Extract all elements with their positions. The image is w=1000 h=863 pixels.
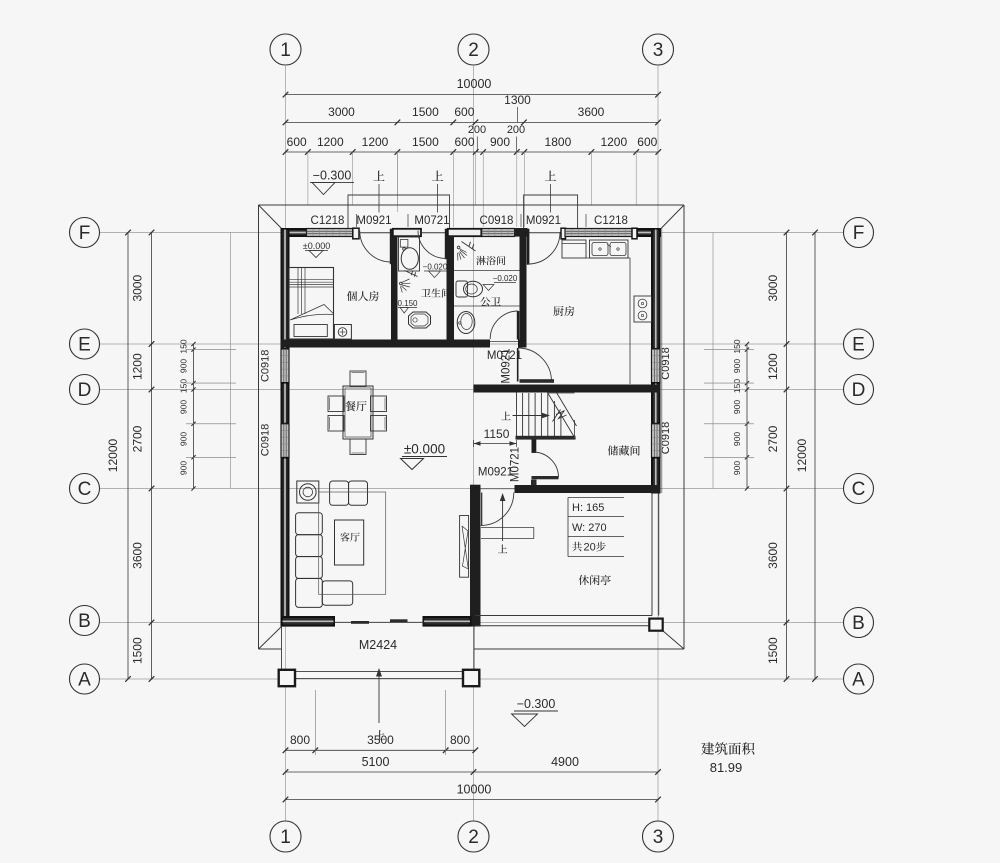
wall jamb left of C1218 right [561,228,566,239]
svg-text:3: 3 [653,827,664,848]
svg-text:3600: 3600 [131,542,145,569]
porch up arrow [376,668,382,723]
svg-text:12000: 12000 [106,438,120,472]
shower room divider line 2 [454,305,520,307]
svg-text:150: 150 [179,339,189,353]
door M0721 hallway swing arc [490,311,518,339]
dimension extension stubs left [186,350,236,458]
dimension segment line left [149,230,155,682]
door M0721 top leaf [445,229,448,260]
door M0721 storage leaf bar [532,476,559,479]
grid bubble E right [844,329,874,359]
stair table text steps [572,542,606,554]
tv cabinet [460,516,469,578]
door M0921 kitchen swing arc [528,232,560,264]
bathroom basin [401,248,418,270]
svg-text:900: 900 [179,400,189,414]
svg-text:4900: 4900 [551,755,579,769]
svg-text:1500: 1500 [412,135,439,149]
svg-text:D: D [78,380,92,401]
svg-text:−0.300: −0.300 [517,697,556,711]
porch right edge [473,627,475,672]
entry up mark 3 [545,171,556,213]
svg-text:M0921: M0921 [526,215,561,227]
svg-text:A: A [78,670,91,691]
wall E-line interior [281,340,490,348]
kitchen sink unit [590,240,629,258]
svg-text:1: 1 [280,827,291,848]
svg-text:1150: 1150 [484,427,510,441]
stair break diagonal 2 [557,393,577,427]
stair center wall stub [532,440,537,454]
bed footboard [294,325,327,337]
sliding door M2424 panel right [390,619,408,622]
svg-text:150: 150 [732,379,742,393]
svg-text:C0918: C0918 [660,422,672,454]
svg-text:−0.020: −0.020 [423,263,448,272]
elevation mark plus-minus 0.000 dining [401,442,448,470]
dining chair top [350,371,366,387]
bed blanket fold [290,305,333,321]
kitchen stove [634,296,652,322]
entry landing right outline [524,195,578,228]
wall right exterior lower [652,458,660,493]
window C0918 left lower [281,424,289,458]
svg-text:200: 200 [507,124,525,136]
grid line axis B horizontal [100,622,843,624]
svg-text:C0918: C0918 [260,350,272,382]
wall right pier between windows [652,383,660,423]
window C1218 top-left in top wall [307,229,353,237]
grid bubble F left [70,218,100,248]
room label kitchen [553,306,574,316]
door M0721 top swing arc [418,231,446,259]
door M0921 living opening sill [481,488,515,490]
wall right outer face line [661,229,663,494]
wall shower-kitchen vertical [520,237,527,348]
room label bedroom [347,291,379,301]
dimension extension stubs top [308,152,636,227]
elevation mark plus-minus 0.000 bedroom [303,241,330,258]
grid bubble 2 top [458,34,489,65]
svg-text:C: C [852,479,866,500]
dimension segment line right [784,230,790,682]
wall left exterior upper [282,229,289,349]
porch up label [375,730,385,739]
wall left exterior lower [282,458,289,626]
svg-text:900: 900 [490,135,510,149]
svg-text:1500: 1500 [766,637,780,664]
wall pier between M0921 and M0721 [393,229,421,236]
svg-text:H: 165: H: 165 [572,502,604,514]
wall top exterior corner segment left [282,229,307,236]
bed outline [289,268,334,340]
dimension row3 line top [283,149,661,155]
sofa left column [296,513,323,608]
wall D-line interior [474,385,661,393]
bed pillow band lines [289,280,334,287]
dining chair right 1 [371,396,387,412]
svg-text:1200: 1200 [362,135,389,149]
eave outline bottom-left segment [259,648,283,650]
window C0918 left upper [281,349,289,383]
dimension 10000 top [283,77,661,97]
pavilion bottom double line [475,616,652,626]
eave outline bottom-right segment [474,648,684,650]
door stop notch on C wall [531,480,537,485]
grid bubble A left [70,664,100,694]
dimension inner line right [745,342,749,491]
svg-text:3: 3 [653,40,664,61]
eave miter top-left [259,205,282,229]
room label living [340,532,359,541]
grid bubble B left [70,606,100,636]
dimension 12000 right line [812,230,818,682]
door M0921 kitchen-hall sill bar [520,379,555,383]
entry up mark 2 [432,171,443,213]
svg-text:C1218: C1218 [311,215,345,227]
svg-text:−0.020: −0.020 [493,274,518,283]
wall B-line living left segment [282,617,334,626]
dining chair left 1 [328,396,344,412]
wall tee pier above shower-kitchen wall [515,228,528,237]
svg-text:10000: 10000 [457,783,492,797]
eave miter bottom-right [663,631,685,650]
stair break zigzag [553,410,567,422]
wall C-line interior [515,485,661,493]
svg-text:1300: 1300 [504,93,531,107]
svg-text:12000: 12000 [795,438,809,472]
svg-text:F: F [79,223,91,244]
svg-text:1: 1 [280,40,291,61]
bathtub [409,312,431,328]
svg-text:10000: 10000 [457,77,492,91]
note building area [701,742,754,754]
svg-text:A: A [852,670,865,691]
dimension 5100 bottom [283,755,477,775]
room label pavilion [578,575,610,585]
svg-text:20: 20 [584,542,596,554]
dimension extension vertical right [712,233,714,489]
grid line axis E horizontal [100,343,843,345]
svg-text:150: 150 [179,379,189,393]
stair right edge [574,420,576,440]
dimension 12000 left line [125,230,131,682]
grid bubble 1 top [270,34,301,65]
pavilion right double line [652,493,659,616]
svg-text:800: 800 [450,733,470,747]
washbasin public wc [457,312,475,334]
stair table lines [568,498,624,557]
svg-text:E: E [78,335,91,356]
svg-text:0.150: 0.150 [397,299,418,308]
svg-text:3000: 3000 [131,275,145,302]
svg-text:±0.000: ±0.000 [303,241,330,251]
svg-text:81.99: 81.99 [710,760,743,775]
wall E-line stub at kitchen wall [518,340,527,348]
shower spray icon bathroom [400,271,418,293]
bathroom basin tap [403,248,406,251]
dining table [343,386,373,439]
eave miter bottom-left [259,627,282,650]
door M0921 kitchen opening sill [528,232,562,234]
bedside table with lamp [334,325,351,340]
door M0921 living swing arc [481,493,514,526]
porch column right [463,670,479,686]
svg-text:900: 900 [732,400,742,414]
eave outline left [258,205,260,649]
grid line axis 2 vertical [473,66,475,821]
label separator ticks top wall [357,214,587,227]
window C1218 top-right in top wall [565,229,632,237]
elevation mark 0.150 bathroom [397,299,418,313]
svg-text:3000: 3000 [766,275,780,302]
kitchen appliance counter [562,240,586,258]
svg-text:900: 900 [732,432,742,446]
eave miter top-right [661,205,684,229]
stair left edge [516,393,518,438]
sofa chaise extension [322,581,352,605]
stair up arrow [513,413,551,419]
dimension 200 top right raised [507,124,525,152]
grid bubble 1 bottom [270,821,301,852]
stair up label [501,411,510,420]
svg-text:M0721: M0721 [510,447,522,482]
living rug outline [319,492,386,594]
sliding door M2424 track [335,621,424,623]
dimension extension stubs right [704,350,754,458]
svg-text:900: 900 [179,359,189,373]
eave outline right [683,205,685,649]
wall living-room east vertical [470,493,481,627]
stair top edge right part [548,392,575,394]
porch left edge [281,627,283,672]
elevation mark -0.300 top [310,169,354,195]
dimension inner line left [191,342,195,491]
svg-text:1200: 1200 [131,353,145,380]
entry up mark 1 [373,171,384,213]
svg-text:5100: 5100 [362,755,390,769]
dimension 1300 top raised [504,93,531,122]
room label public wc [480,297,500,306]
grid line axis D horizontal [100,389,843,391]
wall living-room east cap at C [470,485,481,493]
svg-text:D: D [852,380,866,401]
dimension extension porch columns [315,690,445,755]
grid bubble B right [844,608,874,638]
wall jamb right of C1218 right [632,228,637,239]
grid bubble D right [844,375,874,405]
grid line axis 1 vertical [285,66,287,821]
dimension 1150 corridor [474,427,517,447]
door M0921 top-left leaf [390,229,393,265]
wall right exterior upper [652,229,660,349]
elevation mark -0.020 public wc [483,274,518,291]
porch column left [279,670,295,686]
door M0921 kitchen-hall leaf [517,348,519,382]
stair bottom bar [516,436,576,440]
svg-text:600: 600 [287,135,307,149]
svg-text:900: 900 [732,359,742,373]
svg-text:1200: 1200 [600,135,627,149]
hall up arrow [500,493,506,541]
svg-text:900: 900 [732,461,742,475]
dimension row 800-3500-800 bottom [283,733,478,753]
dimension 4900 bottom [474,755,661,775]
pavilion corner column [649,619,662,631]
dimension row2 line top [283,120,661,126]
stair treads [523,393,561,437]
svg-text:M0921: M0921 [501,348,513,383]
svg-text:3600: 3600 [766,542,780,569]
svg-text:C0918: C0918 [660,347,672,379]
kitchen counter edge [586,258,630,384]
door M0721 top opening sill [421,232,447,234]
hall up label [498,544,507,553]
svg-text:M0921: M0921 [356,215,391,227]
sofa loveseat [330,481,368,505]
bed sheet stripes [298,268,305,314]
svg-text:B: B [852,613,865,634]
door M0721 hallway opening sill [490,341,518,343]
svg-text:W: 270: W: 270 [572,522,607,534]
svg-text:2: 2 [468,40,479,61]
svg-text:2: 2 [468,827,479,848]
svg-text:M2424: M2424 [359,638,397,652]
svg-text:1500: 1500 [131,637,145,664]
window C0918 top in top wall [482,229,515,237]
stair break diagonal 1 [548,393,576,440]
svg-text:M0921: M0921 [478,467,513,479]
room label shower [476,256,505,265]
dining chair bottom [350,439,366,455]
coffee table living [335,520,364,565]
svg-text:1200: 1200 [766,353,780,380]
svg-text:F: F [853,223,865,244]
svg-text:E: E [852,335,865,356]
svg-text:2700: 2700 [766,425,780,452]
grid bubble 3 bottom [643,821,674,852]
grid bubble E left [70,329,100,359]
shower spray icon shower room [457,242,475,261]
window C0918 right upper [652,349,661,383]
toilet public wc [456,281,483,297]
svg-text:±0.000: ±0.000 [404,442,445,457]
grid bubble 3 top [643,34,674,65]
svg-text:3600: 3600 [578,105,605,119]
sofa corner table with lamp [297,481,319,503]
porch slab lines [282,671,475,678]
grid bubble C right [844,474,874,504]
svg-text:600: 600 [637,135,657,149]
svg-text:C: C [78,479,92,500]
svg-text:600: 600 [454,135,474,149]
grid bubble 2 bottom [458,821,489,852]
svg-text:3000: 3000 [328,105,355,119]
hall step lines at living door [481,527,534,538]
wall jamb right of C1218 [353,228,359,239]
svg-text:800: 800 [290,733,310,747]
wall bathroom-shower vertical [447,237,455,340]
window C0918 right lower [652,424,661,458]
door M0921 top-left swing arc [360,231,392,263]
svg-text:B: B [78,611,91,632]
svg-text:900: 900 [179,461,189,475]
svg-text:900: 900 [179,432,189,446]
room label dining [345,401,366,411]
dimension extension vertical left [230,233,232,489]
wall B-line living right segment [424,617,471,626]
svg-text:1200: 1200 [317,135,344,149]
wall bedroom-bathroom vertical [391,237,398,340]
svg-text:C0918: C0918 [480,215,514,227]
elevation mark -0.300 bottom [512,697,559,727]
shower room divider line [454,270,520,272]
door M0921 top-left opening sill [359,232,390,234]
door M0721 storage swing arc [533,452,559,478]
svg-text:−0.300: −0.300 [313,169,352,183]
svg-text:C1218: C1218 [594,215,628,227]
entry landing left outline [348,195,450,228]
door M0921 kitchen-hall swing arc [518,348,552,382]
door M0921 kitchen leaf [527,229,530,265]
grid line axis C horizontal [100,488,843,490]
grid line axis 3 vertical [657,66,659,821]
svg-text:150: 150 [732,339,742,353]
svg-text:1800: 1800 [545,135,572,149]
grid line axis F horizontal [100,232,843,234]
grid bubble A right [844,664,874,694]
wall left pier between windows [282,383,289,423]
room label bathroom [421,288,450,297]
svg-text:M0721: M0721 [414,215,449,227]
eave outline top [259,204,685,206]
dimension 200 top left raised [468,124,486,152]
door M0721 hallway leaf [517,311,520,340]
wall top exterior corner segment right [638,229,661,236]
dimension 10000 bottom [283,783,661,803]
sliding door M2424 panel left [351,621,369,624]
grid bubble D left [70,375,100,405]
bathroom counter [399,237,420,271]
dining chair right 2 [371,416,387,432]
room label storage [608,445,640,455]
grid bubble C left [70,474,100,504]
dining chair left 2 [328,416,344,432]
svg-text:2700: 2700 [131,425,145,452]
elevation mark -0.020 bathroom [423,263,448,278]
svg-text:3500: 3500 [367,733,394,747]
grid bubble F right [844,218,874,248]
svg-text:C0918: C0918 [260,424,272,456]
grid line axis A horizontal [100,678,843,680]
svg-text:600: 600 [454,105,474,119]
svg-text:1500: 1500 [412,105,439,119]
svg-text:200: 200 [468,124,486,136]
wall pier between M0721 and C0918 [448,229,482,236]
